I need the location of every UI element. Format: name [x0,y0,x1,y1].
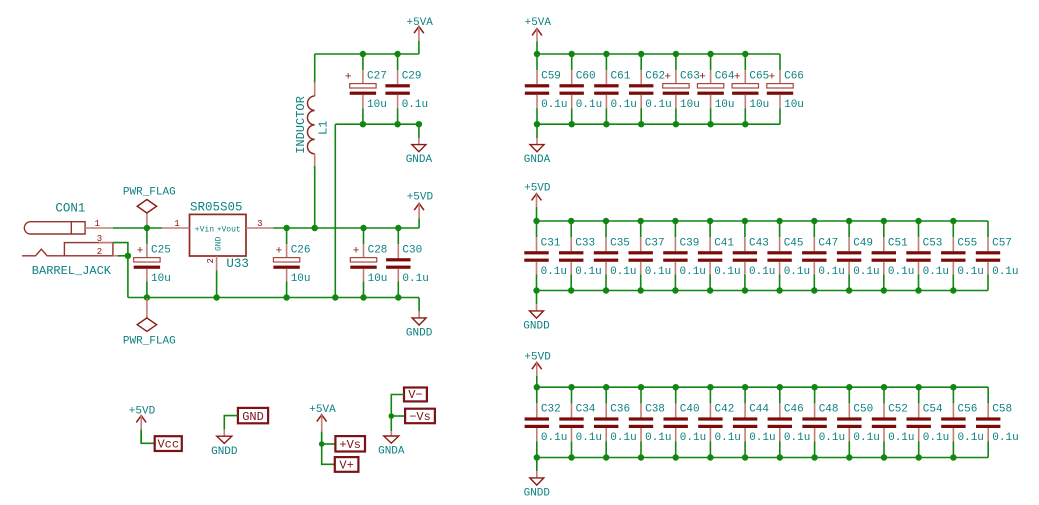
svg-text:0.1u: 0.1u [853,266,879,278]
svg-text:C46: C46 [784,404,804,416]
wire bank bottom rail [537,290,989,292]
svg-text:0.1u: 0.1u [575,266,601,278]
junction C39 top [672,218,678,224]
junction C63 bottom [673,121,679,127]
wire CON1 pin3 corner [113,243,128,298]
svg-text:C44: C44 [749,404,769,416]
svg-text:10u: 10u [367,99,387,111]
svg-text:10u: 10u [715,99,735,111]
junction C43 bottom [742,287,748,293]
power +5VD bank rail [524,351,551,387]
ground GNDA top-left [406,124,433,166]
junction pin2/pin3 node [125,253,131,259]
svg-text:C34: C34 [576,404,596,416]
svg-text:C63: C63 [680,70,700,82]
power flag PWR_FLAG bottom [123,298,176,348]
wire bank bottom rail [537,123,780,125]
svg-text:C57: C57 [992,237,1012,249]
capacitor C57 [976,221,1019,291]
junction GNDA tie [332,294,338,300]
junction C48 bottom [811,454,817,460]
svg-text:0.1u: 0.1u [923,432,949,444]
svg-text:INDUCTOR: INDUCTOR [294,96,308,154]
junction C52 bottom [881,454,887,460]
junction C64 bottom [707,121,713,127]
junction C55 bottom [950,287,956,293]
junction C29 bottom [394,121,400,127]
capacitor C39 [663,221,706,291]
junction C62 bottom [638,121,644,127]
wire bank top rail [537,386,988,388]
junction C62 top [638,51,644,57]
junction C50 bottom [846,454,852,460]
svg-text:0.1u: 0.1u [576,432,602,444]
wire GNDA rail [335,123,419,125]
junction C46 top [777,384,783,390]
capacitor C29 [385,54,428,124]
svg-text:GNDD: GNDD [406,327,433,339]
wire V- to -Vs node [391,395,404,432]
svg-text:+: + [664,72,671,84]
capacitor C45 [767,221,810,291]
junction C47 top [811,218,817,224]
svg-text:0.1u: 0.1u [680,266,706,278]
junction C29 top [394,51,400,57]
capacitor C58 [976,387,1019,457]
junction C46 bottom [777,454,783,460]
capacitor C47 [802,221,845,291]
wire bank top rail [537,53,780,55]
wire +5VA to +Vs and V+ [322,432,335,465]
wire bank bottom rail [537,457,988,459]
svg-text:+: + [353,246,360,258]
junction C59 top [534,51,540,57]
capacitor C64 [697,54,735,124]
capacitor C54 [907,387,950,457]
capacitor C63 [663,54,700,124]
capacitor C30 [386,228,429,298]
junction C49 top [846,218,852,224]
svg-text:C51: C51 [888,237,908,249]
junction C28 top [360,225,366,231]
svg-text:C32: C32 [541,404,561,416]
capacitor C35 [594,221,637,291]
capacitor C49 [837,221,880,291]
svg-text:3: 3 [97,234,102,244]
junction C34 bottom [568,454,574,460]
capacitor C42 [698,387,741,457]
svg-text:0.1u: 0.1u [818,266,844,278]
junction C37 bottom [638,287,644,293]
power +5VA Vs group [309,404,336,444]
svg-text:0.1u: 0.1u [611,99,637,111]
svg-text:+5VD: +5VD [524,182,551,194]
svg-text:C50: C50 [853,404,873,416]
wire U33 GND to rail [216,271,218,298]
svg-text:L1: L1 [317,121,331,135]
junction C33 top [568,218,574,224]
junction C40 bottom [673,454,679,460]
svg-text:C43: C43 [749,237,769,249]
svg-text:0.1u: 0.1u [680,432,706,444]
svg-text:0.1u: 0.1u [888,266,914,278]
svg-text:C30: C30 [402,244,422,256]
capacitor C26 [273,228,310,298]
junction C30 top [395,225,401,231]
svg-text:2: 2 [206,258,216,263]
power symbol GND [238,408,268,424]
capacitor C46 [768,387,811,457]
pin 3 of CON1 [97,234,113,244]
svg-text:CON1: CON1 [55,201,85,215]
ground GNDD bank [524,458,551,500]
svg-text:GNDA: GNDA [378,446,405,458]
junction C61 bottom [603,121,609,127]
svg-text:0.1u: 0.1u [958,432,984,444]
svg-text:C65: C65 [749,70,769,82]
capacitor C28 [350,228,387,298]
capacitor C48 [802,387,845,457]
svg-text:C41: C41 [714,237,734,249]
svg-text:C62: C62 [645,70,665,82]
svg-text:C58: C58 [992,404,1012,416]
wire GND to GNDD [224,416,238,430]
junction C64 top [707,51,713,57]
power +5VD bank rail [524,182,551,221]
junction C41 top [707,218,713,224]
svg-text:C56: C56 [958,404,978,416]
junction C25 ground [144,294,150,300]
junction C43 top [742,218,748,224]
capacitor C56 [941,387,984,457]
svg-text:+: + [699,72,706,84]
junction C31 top [533,218,539,224]
svg-text:C53: C53 [923,237,943,249]
junction U33 ground [213,294,219,300]
power symbol -Vs [405,409,435,424]
svg-text:+5VD: +5VD [524,351,551,363]
junction C54 top [916,384,922,390]
svg-text:GNDA: GNDA [524,154,551,166]
svg-text:C35: C35 [610,237,630,249]
power symbol Vcc [155,436,182,451]
wire L1 to output line [314,166,316,228]
power +5VA top-left [407,17,434,54]
svg-text:C55: C55 [957,237,977,249]
svg-text:U33: U33 [226,257,249,271]
capacitor C41 [698,221,741,291]
capacitor C53 [906,221,949,291]
junction C51 bottom [881,287,887,293]
svg-text:C27: C27 [367,70,387,82]
svg-text:C25: C25 [151,244,171,256]
junction C51 top [881,218,887,224]
junction C44 top [742,384,748,390]
svg-text:C66: C66 [784,70,804,82]
svg-text:0.1u: 0.1u [923,266,949,278]
svg-text:C54: C54 [923,404,943,416]
svg-text:10u: 10u [291,273,311,285]
capacitor C40 [664,387,707,457]
capacitor C62 [629,54,672,124]
svg-text:GNDD: GNDD [524,487,551,499]
svg-text:10u: 10u [680,99,700,111]
svg-text:C49: C49 [853,237,873,249]
svg-text:Vcc: Vcc [157,438,179,452]
svg-text:+5VD: +5VD [407,192,434,204]
capacitor C32 [525,387,568,457]
junction C28 bottom [360,294,366,300]
svg-text:10u: 10u [784,99,804,111]
svg-text:0.1u: 0.1u [402,273,428,285]
junction C38 top [638,384,644,390]
svg-text:PWR_FLAG: PWR_FLAG [123,187,176,199]
junction C31 bottom [533,287,539,293]
junction C54 bottom [916,454,922,460]
power +5VD Vcc group [129,406,156,444]
junction C48 top [811,384,817,390]
capacitor C52 [872,387,915,457]
svg-text:0.1u: 0.1u [784,266,810,278]
power symbol +Vs [335,436,365,452]
ground GNDA symbol group [378,431,405,458]
svg-text:−Vs: −Vs [409,410,431,424]
capacitor C50 [837,387,880,457]
svg-text:2: 2 [97,247,102,257]
junction C33 bottom [568,287,574,293]
svg-text:+: + [769,72,776,84]
svg-text:0.1u: 0.1u [715,432,741,444]
svg-text:C47: C47 [818,237,838,249]
svg-text:C60: C60 [576,70,596,82]
svg-text:GND: GND [214,236,223,251]
junction C40 top [673,384,679,390]
svg-text:V+: V+ [339,458,353,472]
power flag PWR_FLAG top [123,187,176,228]
junction input node [144,225,150,231]
svg-text:0.1u: 0.1u [992,266,1018,278]
svg-text:C31: C31 [541,237,561,249]
junction GNDA rail end [416,121,422,127]
capacitor C65 [732,54,769,124]
svg-text:0.1u: 0.1u [645,432,671,444]
svg-text:0.1u: 0.1u [645,266,671,278]
capacitor C25 [134,228,171,298]
power symbol V+ [335,457,359,472]
svg-text:C38: C38 [645,404,665,416]
ground GNDD regulator [406,298,433,340]
capacitor C27 [345,54,387,124]
junction C52 top [881,384,887,390]
junction C49 bottom [846,287,852,293]
junction C38 bottom [638,454,644,460]
junction C35 bottom [603,287,609,293]
svg-text:0.1u: 0.1u [888,432,914,444]
svg-text:0.1u: 0.1u [992,432,1018,444]
capacitor C37 [629,221,672,291]
wire ground rail [128,297,419,299]
ground GNDA bank [524,124,551,166]
junction C37 top [638,218,644,224]
svg-text:C52: C52 [888,404,908,416]
junction C32 bottom [534,454,540,460]
svg-text:0.1u: 0.1u [957,266,983,278]
junction +Vs node [319,441,325,447]
junction C60 top [569,51,575,57]
capacitor C59 [525,54,568,124]
svg-text:10u: 10u [368,273,388,285]
svg-text:0.1u: 0.1u [749,432,775,444]
junction C39 bottom [672,287,678,293]
svg-text:0.1u: 0.1u [853,432,879,444]
capacitor C51 [872,221,915,291]
junction -Vs node [389,413,395,419]
connector CON1 barrel jack [22,201,113,277]
junction C35 top [603,218,609,224]
capacitor C60 [560,54,603,124]
svg-text:+: + [734,72,741,84]
svg-text:C40: C40 [680,404,700,416]
svg-text:C61: C61 [611,70,631,82]
svg-text:0.1u: 0.1u [576,99,602,111]
svg-text:0.1u: 0.1u [541,266,567,278]
junction C42 top [707,384,713,390]
svg-text:1: 1 [174,219,179,229]
svg-text:10u: 10u [749,99,769,111]
capacitor C36 [594,387,637,457]
capacitor C61 [594,54,637,124]
svg-text:C28: C28 [368,244,388,256]
svg-text:0.1u: 0.1u [610,432,636,444]
pin 2 of CON1 [97,247,120,257]
svg-text:+: + [345,72,352,84]
power symbol V- [404,388,427,403]
wire +5VD to Vcc [141,430,155,444]
junction C26 bottom [283,294,289,300]
svg-text:C45: C45 [784,237,804,249]
svg-text:+Vout: +Vout [217,225,241,234]
junction C36 bottom [603,454,609,460]
svg-text:0.1u: 0.1u [714,266,740,278]
power +5VA bank rail [525,17,552,54]
svg-text:GND: GND [242,410,264,424]
junction C27 bottom [360,121,366,127]
junction C45 top [776,218,782,224]
svg-text:GNDD: GNDD [523,320,550,332]
svg-text:0.1u: 0.1u [402,99,428,111]
svg-text:C39: C39 [680,237,700,249]
junction C27 top [360,51,366,57]
svg-text:C42: C42 [715,404,735,416]
junction C60 bottom [569,121,575,127]
junction C30 bottom [395,294,401,300]
junction C34 top [568,384,574,390]
svg-text:C26: C26 [291,244,311,256]
svg-text:GNDD: GNDD [211,446,238,458]
pin 2 of U33 [206,256,217,271]
svg-text:PWR_FLAG: PWR_FLAG [123,335,176,347]
junction C45 bottom [776,287,782,293]
junction C63 top [673,51,679,57]
junction C61 top [603,51,609,57]
svg-text:C64: C64 [715,70,735,82]
svg-text:V−: V− [408,388,422,402]
junction C36 top [603,384,609,390]
junction L1 output [312,225,318,231]
svg-text:+5VA: +5VA [525,17,552,29]
wire +5VA rail [315,53,419,55]
svg-text:C37: C37 [645,237,665,249]
svg-text:+5VA: +5VA [309,404,336,416]
capacitor C38 [629,387,672,457]
junction C53 bottom [915,287,921,293]
junction C56 bottom [950,454,956,460]
junction C65 bottom [742,121,748,127]
svg-text:+Vin: +Vin [195,225,214,234]
svg-text:+Vs: +Vs [339,438,361,452]
wire CON1 pin1 to U33 [113,227,162,229]
svg-text:C59: C59 [541,70,561,82]
junction C32 top [534,384,540,390]
svg-text:+: + [276,246,283,258]
ground GNDD bank [523,291,550,333]
wire GNDA tie-down [334,124,336,297]
junction C50 top [846,384,852,390]
svg-text:3: 3 [257,219,262,229]
junction C53 top [915,218,921,224]
svg-text:+: + [137,246,144,258]
svg-text:0.1u: 0.1u [541,99,567,111]
svg-text:0.1u: 0.1u [645,99,671,111]
capacitor C33 [559,221,602,291]
svg-text:GNDA: GNDA [406,154,433,166]
svg-text:BARREL_JACK: BARREL_JACK [32,264,112,278]
capacitor C31 [524,221,567,291]
capacitor C34 [559,387,602,457]
pin 3 of U33 [246,219,273,229]
pin 1 of CON1 [85,219,113,229]
pin 1 of U33 [162,219,190,229]
svg-text:0.1u: 0.1u [541,432,567,444]
junction C65 top [742,51,748,57]
svg-text:1: 1 [94,219,99,229]
wire CON1 pin2 stub [118,255,128,257]
junction C41 bottom [707,287,713,293]
capacitor C44 [733,387,776,457]
wire bank top rail [537,220,989,222]
svg-text:10u: 10u [151,273,171,285]
junction C44 bottom [742,454,748,460]
wire +5VD output line [273,227,419,229]
inductor L1 [294,54,331,166]
svg-text:0.1u: 0.1u [749,266,775,278]
svg-text:0.1u: 0.1u [784,432,810,444]
power +5VD regulator output [407,192,434,229]
svg-text:C29: C29 [402,70,422,82]
svg-text:C48: C48 [819,404,839,416]
capacitor C66 [767,54,804,124]
capacitor C55 [941,221,984,291]
svg-text:0.1u: 0.1u [819,432,845,444]
junction C47 bottom [811,287,817,293]
ground GNDD symbol group [211,429,238,457]
junction C56 top [950,384,956,390]
junction C26 top [283,225,289,231]
junction C55 top [950,218,956,224]
junction C59 bottom [534,121,540,127]
svg-text:SR05S05: SR05S05 [190,201,243,215]
capacitor C43 [733,221,776,291]
